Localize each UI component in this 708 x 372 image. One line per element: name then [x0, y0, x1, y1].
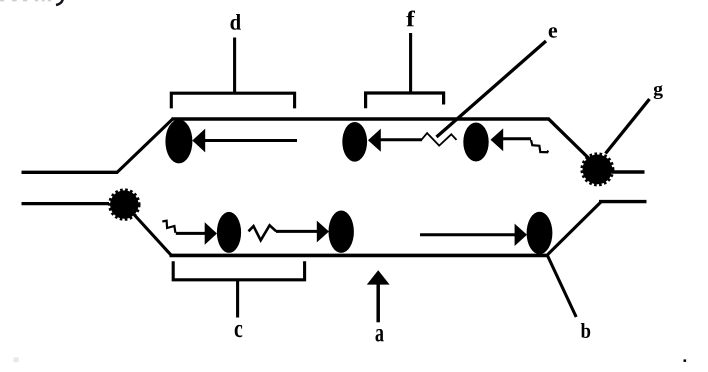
bracket c — [173, 261, 304, 280]
top track right diagonal — [548, 119, 591, 161]
bottom track left diagonal — [134, 215, 172, 256]
top track main line — [172, 117, 550, 121]
motor ellipse E2 — [342, 122, 367, 162]
label c — [235, 325, 243, 337]
period dot bottom-right — [684, 359, 687, 362]
arrow A6 (right) head — [515, 224, 527, 246]
arrow A4 shaft — [176, 232, 206, 235]
arrow A3 shaft — [502, 137, 531, 140]
motor ellipse E5 — [329, 211, 354, 253]
arrow A6 shaft — [420, 233, 516, 236]
arrow A1 shaft — [204, 139, 297, 142]
motor ellipse E3 — [463, 123, 488, 162]
spring zigzag Z1 — [421, 133, 457, 146]
arrow A4 (right) head — [205, 222, 217, 245]
arrow A5 (right) head — [317, 221, 329, 243]
label g — [654, 85, 663, 99]
arrow A2 (left) head — [368, 129, 381, 152]
label b — [581, 323, 590, 338]
bracket d — [171, 93, 294, 108]
faint smudge bottom-left — [14, 358, 19, 363]
motor ellipse E4 — [217, 212, 241, 253]
leader line g — [606, 99, 650, 154]
bracket d stem — [233, 38, 236, 94]
bottom track main line — [170, 254, 549, 258]
motor ellipse E6 — [527, 212, 553, 254]
tether zigzag Z2 — [531, 140, 548, 152]
bottom track right stub — [599, 200, 647, 203]
top track left segment — [22, 171, 119, 174]
bracket f — [366, 93, 444, 108]
organelle ball g (spiky) — [582, 154, 613, 185]
cropped paren descender top-left — [56, 0, 63, 5]
spring zigzag Z4 — [249, 225, 277, 240]
arrow a shaft — [376, 284, 380, 323]
bracket c stem — [236, 280, 239, 318]
label f — [406, 10, 415, 26]
tether zigzag Z3 — [162, 221, 175, 233]
arrow A3 (left) head — [491, 128, 504, 151]
leader line e — [437, 41, 547, 137]
bracket f stem — [409, 33, 412, 93]
top track left diagonal — [117, 118, 174, 172]
cropped text remnant dashes top-left — [0, 0, 51, 1]
arrow A1 (left) head — [192, 129, 205, 153]
top track right stub — [612, 170, 645, 173]
label a — [376, 329, 384, 341]
motor ellipse E1 — [165, 119, 192, 163]
bottom track left segment — [22, 202, 110, 205]
arrow a (up) head — [367, 270, 390, 284]
label e — [549, 27, 557, 37]
organelle ball left (spiky) — [110, 190, 139, 219]
arrow A2 shaft — [380, 138, 422, 141]
bottom track right diagonal — [547, 202, 601, 256]
label d — [230, 14, 240, 30]
leader line b — [548, 256, 577, 317]
arrow A5 shaft — [276, 230, 318, 233]
